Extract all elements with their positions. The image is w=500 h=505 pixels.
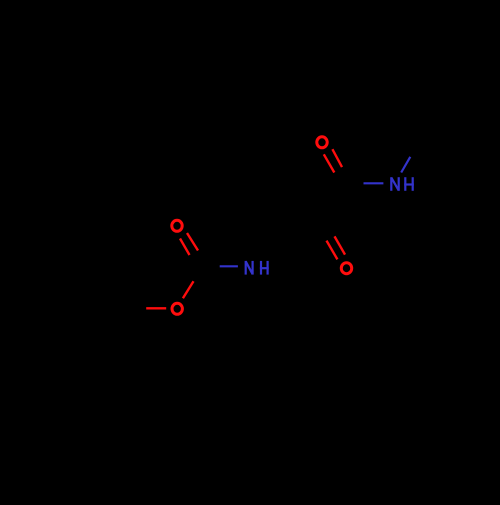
bond C1-N1 (blue half) — [364, 182, 384, 184]
bond C3=O3 double bond (red half) — [180, 233, 198, 255]
bond N1-CH3 (blue half) — [401, 157, 410, 173]
bond C2=O2 double bond (red half) — [327, 236, 346, 259]
atom O3 (carbamate carbonyl oxygen) — [172, 220, 182, 231]
atom N1 H (amide NH label) — [391, 177, 414, 191]
bond C3-N2 (blue half) — [220, 265, 238, 267]
atom N2 H (carbamate NH label) — [246, 261, 269, 275]
atom O4 (ester oxygen) — [172, 303, 182, 314]
bond O4-CH2 benzyl (red half) — [146, 307, 166, 309]
atom O2 (ketone oxygen) — [341, 263, 351, 274]
bond C1=O1 double bond (red half) — [324, 149, 342, 172]
atom O1 (amide carbonyl oxygen) — [317, 137, 327, 148]
bond O4-C3 (red half) — [183, 281, 194, 298]
